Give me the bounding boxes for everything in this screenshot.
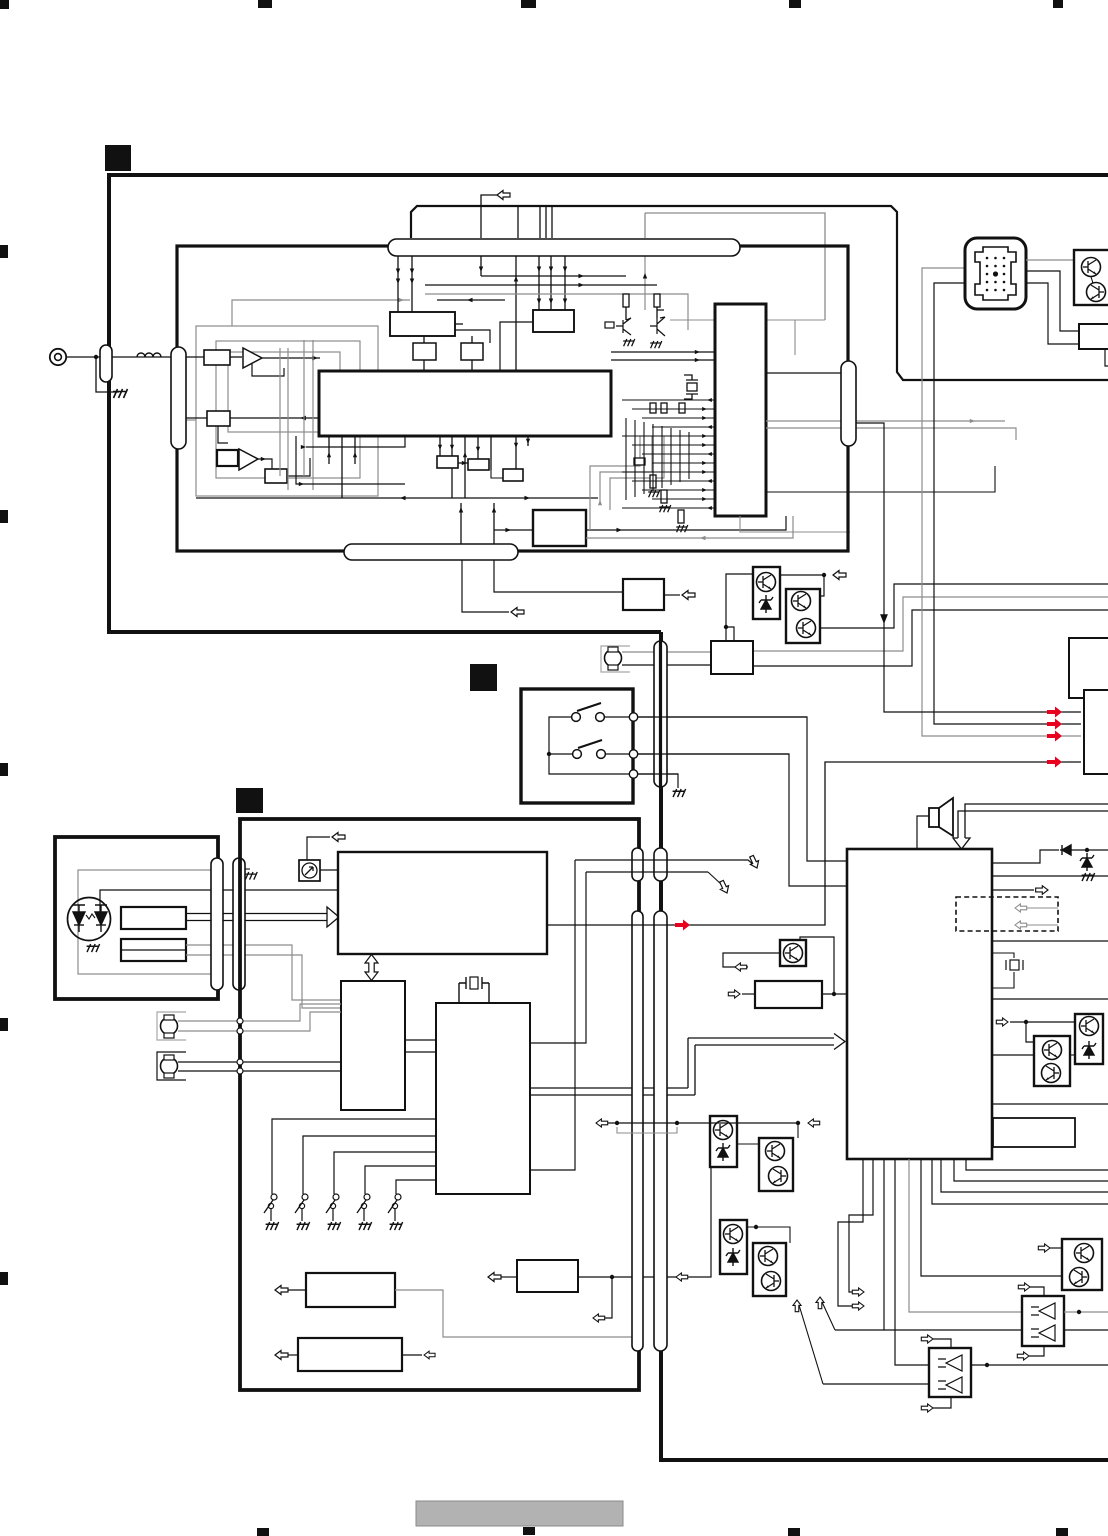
wire R-t1 down xyxy=(625,307,627,320)
wire det out xyxy=(258,459,272,469)
U2 vert 7 xyxy=(679,430,681,482)
bidir arrow U3-U4 xyxy=(365,955,378,981)
long pill A1 xyxy=(632,848,643,881)
wire B8 right xyxy=(578,1167,711,1277)
divider line through pill xyxy=(659,641,662,787)
main micro U5 xyxy=(436,1003,530,1194)
open arrow 1123 left xyxy=(596,1119,608,1127)
key switch SW4 xyxy=(364,1194,370,1200)
ground near pills xyxy=(245,872,257,880)
gray wire OP2 out xyxy=(1064,1311,1108,1313)
wire down to QP1 xyxy=(1026,1022,1034,1042)
wire M2 a xyxy=(178,1004,341,1021)
open arrow stub 609 xyxy=(511,608,524,617)
junction dot QD3 xyxy=(754,1225,758,1229)
bus drop e xyxy=(538,256,540,310)
wire conn to B9 b xyxy=(1026,283,1079,344)
key switch SW5 xyxy=(395,1194,401,1200)
wire U6 arrow 890 xyxy=(992,889,1034,891)
resistor row r1 xyxy=(650,403,656,413)
wire sensor out xyxy=(100,890,338,912)
key switch SW3 xyxy=(333,1194,339,1200)
aux box B10 xyxy=(993,1118,1075,1147)
crop mark top-left xyxy=(0,0,9,9)
arrow f1-f2 xyxy=(458,462,468,464)
wire motor to relay b xyxy=(622,664,711,666)
QP1 transistor box xyxy=(1034,1036,1070,1086)
power amp IC U6 xyxy=(847,849,992,1159)
RF amp input box xyxy=(204,350,230,365)
IF counter box B1 xyxy=(390,312,455,336)
sensor box B xyxy=(121,939,186,961)
crop mark left 5 xyxy=(0,1272,8,1285)
crop mark bottom 3 xyxy=(788,1528,800,1536)
fan vert 5 xyxy=(451,436,453,498)
ground SW4 xyxy=(359,1222,372,1230)
crop mark bottom 2 xyxy=(523,1527,535,1535)
tilted arrow a xyxy=(747,854,761,870)
crossing circles on frame xyxy=(237,1018,243,1024)
diag line arrow 2 xyxy=(799,1305,823,1384)
fan vert 4 xyxy=(439,436,441,456)
transistor QB2a xyxy=(792,592,811,611)
wire QP3 left stub xyxy=(723,953,780,967)
gray inner loop sensor xyxy=(78,870,211,974)
main section divider frame xyxy=(661,632,1108,1460)
antenna jack J1 xyxy=(50,349,66,365)
ground Rg3 xyxy=(676,525,688,532)
motor M2 bracket xyxy=(157,1012,186,1040)
QD4 transistor box xyxy=(753,1243,786,1296)
motor M1 xyxy=(605,650,622,667)
U6 fan x932 xyxy=(932,1159,1108,1204)
U2 feed 5 xyxy=(622,435,715,437)
wire 1330 to opamp2 xyxy=(884,1329,1022,1331)
U2 feed 12 xyxy=(652,498,715,500)
power bus arrow into U6 xyxy=(953,804,1108,849)
wire M3 b xyxy=(178,1070,341,1072)
wire U4-U5 a xyxy=(405,1039,436,1041)
ground Q-t1 xyxy=(623,339,635,346)
crop mark left 2 xyxy=(0,510,8,523)
junction dot OP1 xyxy=(985,1363,989,1367)
QD1 zener box xyxy=(710,1116,737,1167)
wire out1 over pill xyxy=(633,716,807,718)
wire b1 links xyxy=(423,336,425,343)
long return line y498 xyxy=(196,497,598,499)
gray feedback line top xyxy=(232,300,410,326)
wire row2 to IC xyxy=(230,417,320,419)
wire b1a down xyxy=(423,360,425,371)
resistor row r2 xyxy=(661,403,667,413)
opamp OP1 symbols xyxy=(938,1355,962,1393)
wire diode to edge xyxy=(1072,849,1108,851)
aux box F right edge xyxy=(1084,690,1108,774)
gray routing loop 2 xyxy=(216,341,360,478)
open arrow OP1 bottom xyxy=(921,1404,933,1412)
switch output terminals xyxy=(629,713,637,721)
U2 vert 4 xyxy=(652,424,654,491)
transistor QT2 xyxy=(1087,283,1106,302)
bus drop d long xyxy=(515,256,517,371)
wire pillbottom to stub xyxy=(462,560,509,612)
wire U6 out 941 xyxy=(992,940,1108,942)
zener QD3b xyxy=(726,1248,740,1266)
crop mark left 4 xyxy=(0,1018,8,1031)
gray bracket 1123 xyxy=(617,1127,677,1133)
key switch SW1 xyxy=(271,1194,277,1200)
crystal X3 loop xyxy=(992,953,1014,958)
red arrow marker 1 xyxy=(675,920,690,931)
wire U6 out 1104 xyxy=(992,1103,1108,1105)
diag to arrow b xyxy=(708,872,722,885)
IC bottom left loop wires xyxy=(296,436,405,484)
wire amp out xyxy=(262,357,320,359)
diode D2 xyxy=(1060,845,1072,855)
fan vert 9 xyxy=(515,436,517,469)
wire drop to bus 4 xyxy=(551,206,553,238)
transistor QB2b xyxy=(797,619,816,638)
gray vertical pair 1 xyxy=(279,348,281,476)
key switch SW5 wire xyxy=(396,1180,436,1194)
wire S1 to out xyxy=(605,716,629,718)
wire front-end row2 xyxy=(186,417,207,419)
fan vert 2 xyxy=(341,436,343,498)
gray vertical pair 2 xyxy=(287,348,289,490)
fan vert 8 xyxy=(490,436,492,470)
transistor QP4a xyxy=(1075,1244,1094,1263)
ground SW1 xyxy=(266,1222,279,1230)
U6 fan x895 xyxy=(895,1159,929,1365)
open arrow QP3 xyxy=(735,963,747,971)
fan vert 3 xyxy=(354,436,356,464)
wire gray branch upper xyxy=(645,213,825,320)
bus drop f xyxy=(550,256,552,310)
din connector plug outline xyxy=(975,247,1016,300)
cable bus pill top xyxy=(388,239,740,256)
gray link drop xyxy=(794,320,796,355)
crop mark bottom 1 xyxy=(257,1528,269,1536)
wire OP1 in bottom xyxy=(933,1397,951,1408)
divider pill upper xyxy=(654,641,667,787)
fan vert 1 xyxy=(328,436,330,464)
ground Rg2 xyxy=(659,505,671,512)
QT transistor box xyxy=(1074,250,1108,305)
transistor QB1a xyxy=(757,573,776,592)
bus drop c xyxy=(480,256,482,276)
wire out2 over pill xyxy=(633,753,789,755)
wire antenna to front-end xyxy=(66,356,100,358)
sub box b1a xyxy=(413,343,436,360)
wire choke to connector xyxy=(112,356,171,358)
crop mark top 4 xyxy=(789,0,801,8)
ground SW5 xyxy=(390,1222,403,1230)
wire pill to B4 xyxy=(494,560,623,592)
gray wire B6 out xyxy=(395,1290,637,1337)
ground SW3 xyxy=(328,1222,341,1230)
wire drop to bus 2 xyxy=(539,206,541,238)
antenna ground branch xyxy=(96,357,119,392)
gray U2 out 1 xyxy=(766,420,1005,422)
wire OP2 out black xyxy=(1064,1329,1108,1331)
resistor Rg3 xyxy=(678,510,684,523)
sensor box B midline xyxy=(121,949,186,951)
bus drop arrows b xyxy=(411,256,413,312)
U2 vert 1 xyxy=(625,418,627,500)
wire OP2 in top xyxy=(1030,1287,1044,1296)
open arrow off-page left xyxy=(497,191,510,200)
power Q block QB1 xyxy=(753,567,780,619)
wire OP1 in top xyxy=(933,1339,951,1348)
open arrow 1318 xyxy=(593,1314,605,1322)
zener QP2b xyxy=(1082,1041,1096,1059)
transistor QD4b xyxy=(762,1272,781,1291)
U6 fan x863 xyxy=(838,1159,863,1306)
wire QP link xyxy=(1070,1054,1075,1056)
display IC U3 xyxy=(338,852,547,954)
arrow row2 xyxy=(300,416,306,421)
key switch SW1 wire xyxy=(272,1119,436,1194)
tuner main IC U1 xyxy=(319,371,611,436)
tilted arrow b xyxy=(717,879,731,895)
open arrow B7 right xyxy=(424,1351,435,1359)
QP2 transistor box xyxy=(1075,1014,1103,1064)
align box f2 xyxy=(468,459,489,470)
speaker SP1 xyxy=(929,798,953,836)
junction dot B11 xyxy=(832,992,836,996)
section marker square 3 xyxy=(236,788,263,813)
signal wire 1123 xyxy=(596,1122,798,1124)
transistor QT1 xyxy=(1082,258,1101,277)
remote sensor box frame xyxy=(55,837,218,999)
fan vert 7 xyxy=(477,436,479,459)
resistor Rg2 xyxy=(661,490,667,503)
IR diode symbols xyxy=(73,905,107,932)
tuner section outer frame xyxy=(109,175,1108,632)
U6 fan x954 xyxy=(954,1159,1108,1181)
VCO box B2 xyxy=(533,310,574,332)
QD2 transistor box xyxy=(759,1138,793,1191)
detector box thick xyxy=(217,450,238,466)
ground SW2 xyxy=(297,1222,310,1230)
wire conn to B9 a xyxy=(1026,271,1079,331)
wire QP3 top xyxy=(800,937,834,994)
tuner PLL IC U2 xyxy=(715,304,766,516)
wire U6 out 999 xyxy=(992,998,1108,1000)
wire pill gnd link xyxy=(245,868,250,870)
cable pill bottom xyxy=(344,544,518,560)
crystal X2 xyxy=(459,977,489,1003)
red arrow 712 xyxy=(1047,707,1062,718)
gray routing loop 3 xyxy=(228,352,340,432)
dist line 3 gray xyxy=(425,294,688,330)
transistor QP1a xyxy=(1043,1041,1062,1060)
wire 1384 to opamp xyxy=(823,1383,929,1385)
wire OP1 out xyxy=(971,1364,1108,1366)
long pill A2 xyxy=(654,848,667,881)
QD3 zener box xyxy=(720,1220,747,1274)
transistor QD2a xyxy=(766,1142,785,1161)
arrow det xyxy=(261,457,266,461)
interconnect box thick B3 xyxy=(533,510,586,546)
junction dot 1022 xyxy=(1024,1020,1028,1024)
wire drop to bus 3 xyxy=(545,206,547,238)
resistor row r3 xyxy=(679,403,685,413)
loudness switch box xyxy=(521,689,633,803)
sensor amp box A xyxy=(121,907,186,929)
arrow into IC xyxy=(312,356,318,361)
junction dot diode xyxy=(1085,848,1089,852)
align box f3 xyxy=(503,469,523,481)
U2 feed 13 xyxy=(622,507,715,509)
wire Q-block feed xyxy=(726,574,753,641)
wire U6 1055 xyxy=(992,1054,1034,1056)
wire off-page stub with open arrow xyxy=(481,195,510,238)
transistor QP3 xyxy=(784,944,803,963)
wire OP2 in bottom xyxy=(1029,1346,1044,1356)
open arrow B7 left xyxy=(288,1354,298,1356)
footer gray label block xyxy=(416,1501,623,1526)
zener QD1b xyxy=(716,1143,730,1161)
open arrow OP1 top xyxy=(921,1335,933,1343)
sub box b1b xyxy=(461,343,483,360)
key switch SW2 xyxy=(302,1194,308,1200)
ground Q-t2 xyxy=(650,341,662,348)
U2 feed 9 xyxy=(622,471,715,473)
gray return 537 xyxy=(586,516,793,538)
buffer amp A1 xyxy=(243,348,262,368)
QP4 transistor box xyxy=(1062,1239,1102,1290)
antenna connector pill xyxy=(100,345,112,382)
dist line 4 xyxy=(437,299,505,301)
key switch SW4 wire xyxy=(365,1166,436,1194)
gray link transistor area xyxy=(670,319,825,321)
open arrow B6 xyxy=(288,1289,306,1291)
U6 fan x941 xyxy=(941,1159,1108,1192)
remote data bus arrow xyxy=(186,907,339,927)
diag line arrow 1 xyxy=(822,1302,835,1330)
gray routing loop large xyxy=(196,326,378,496)
IR detector D1 circle xyxy=(68,898,111,941)
power Q block QB2 xyxy=(786,589,820,643)
open arrow 837 xyxy=(332,833,345,842)
open arrow B4 right xyxy=(664,594,680,596)
crop mark top 5 xyxy=(1053,0,1063,8)
wire QB1 top link xyxy=(780,574,824,576)
cable pill left xyxy=(171,347,186,449)
off-page arrow top xyxy=(307,837,330,860)
wire U6 out 876 xyxy=(992,875,1108,877)
box B8 bottom xyxy=(517,1260,578,1292)
small resistor horiz xyxy=(634,458,645,465)
relay box B5 xyxy=(711,641,753,674)
tilted open arrow 2 xyxy=(793,1300,801,1312)
gray bundle vert a xyxy=(590,436,640,530)
U2 feed 11 xyxy=(642,489,715,491)
hollow diag arrow a xyxy=(575,860,754,865)
wire U2 to pill right xyxy=(766,372,842,374)
wire B3 right xyxy=(586,516,786,530)
dashed option box xyxy=(956,897,1058,931)
open arrow fan 1306 xyxy=(852,1302,864,1310)
switch S2 lever xyxy=(578,740,602,748)
wire QT link xyxy=(1091,277,1093,283)
wire U4-U5 b xyxy=(405,1051,436,1053)
inductor L1 xyxy=(137,353,161,357)
open arrow OP2 top xyxy=(1018,1283,1030,1291)
section marker square 2 xyxy=(470,664,497,691)
ground Rg1 xyxy=(648,490,660,497)
gray bundle vert b xyxy=(600,436,652,503)
motor M3 xyxy=(161,1058,178,1075)
wire osc route xyxy=(287,458,310,476)
sensor gray out 2 xyxy=(186,955,341,1008)
transistor Q-t2 small xyxy=(650,310,665,336)
switch S2 contacts xyxy=(573,750,582,759)
wire B11 out xyxy=(822,993,847,995)
wire R-t2 down xyxy=(656,307,658,318)
wire into B3 xyxy=(494,529,533,531)
open arrow B11 xyxy=(728,990,740,998)
crystal X1 tuner xyxy=(684,375,698,399)
open arrow 890 xyxy=(1036,886,1048,895)
junction dot x727 xyxy=(724,625,728,629)
U2 feed 2 xyxy=(632,408,715,410)
photo device circle xyxy=(302,863,317,878)
align box f1 xyxy=(437,456,458,468)
bus drop gray h xyxy=(644,256,646,310)
gray U2 out 2 xyxy=(766,428,1016,440)
gray bundle vert c xyxy=(610,436,664,510)
long pill B2 xyxy=(654,911,667,1351)
opamp OP2 symbols xyxy=(1031,1303,1055,1341)
wire U2 out right low xyxy=(766,466,995,492)
aux box E right edge xyxy=(1069,638,1108,698)
bus drop arrows a xyxy=(397,256,399,312)
zener D3 xyxy=(1080,853,1094,871)
U6 fan x909 gray xyxy=(909,1159,1022,1312)
wire front-end row1 xyxy=(186,356,204,358)
front panel section frame xyxy=(240,819,639,1390)
wire motor to relay a xyxy=(622,651,711,653)
switch S1 lever xyxy=(577,703,601,711)
wire U5 y1170 xyxy=(530,860,575,1170)
wire QB2 out right xyxy=(820,584,1108,628)
gray vertical pair 4 xyxy=(312,340,314,490)
U6 fan x921 xyxy=(921,1159,1062,1276)
reg box B11 xyxy=(755,981,822,1008)
wire 1022 to QP boxes xyxy=(1010,1021,1075,1023)
feedback wire under amp xyxy=(252,363,284,376)
U2 feed 1 xyxy=(622,399,715,401)
key IC U4 xyxy=(341,981,405,1110)
U2 vert 5 xyxy=(661,426,663,488)
junction dot B8 xyxy=(610,1275,614,1279)
crop mark bottom 4 xyxy=(1056,1528,1068,1536)
cable pill right xyxy=(841,361,856,446)
crop mark top 2 xyxy=(258,0,272,8)
vert to arrow stub xyxy=(460,503,462,544)
wire conn black down xyxy=(934,283,1081,724)
U2 feed 8 xyxy=(652,462,715,464)
red arrow 724 xyxy=(1047,719,1062,730)
opamp box OP2 xyxy=(1022,1296,1064,1346)
QP3 box single xyxy=(780,940,806,966)
resistor R-t2 xyxy=(654,294,660,307)
transistor QD2b xyxy=(769,1167,788,1186)
bus drop g xyxy=(564,256,566,310)
gray out 597 xyxy=(753,597,1108,651)
